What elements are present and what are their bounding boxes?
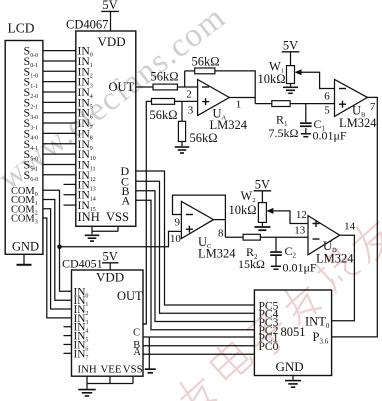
svg-text:W2: W2: [241, 189, 256, 204]
W1 wiper arrow: [295, 69, 302, 75]
svg-text:OUT: OUT: [109, 80, 135, 94]
wire W1 wiper to U_B pin6: [302, 72, 335, 88]
svg-text:VSS: VSS: [123, 363, 143, 375]
svg-text:PC0: PC0: [259, 341, 279, 353]
svg-text:LM324: LM324: [198, 247, 236, 261]
junction dot COM0 tap: [57, 245, 62, 250]
svg-text:LM324: LM324: [210, 118, 248, 132]
wire fb right to output node: [215, 71, 255, 104]
wire COM3 to CD4051 IN3: [43, 218, 72, 318]
svg-text:LCD: LCD: [8, 21, 35, 36]
ground C2: [275, 256, 277, 266]
svg-text:VSS: VSS: [106, 210, 129, 224]
wire COM0 tap to U_C pin10: [60, 231, 182, 246]
wire COM2 to CD4051 IN2: [43, 209, 72, 309]
wire D to 8051 PC5: [136, 171, 255, 305]
CD4051 IN0..IN7 labels: [74, 286, 89, 361]
wire R to U_A pin2: [177, 86, 197, 88]
svg-text:0.01μF: 0.01μF: [313, 128, 347, 142]
svg-text:GND: GND: [12, 239, 39, 253]
wire W2 wiper to U_D pin12: [273, 211, 308, 224]
wire COM0 to CD4051 IN0: [43, 190, 72, 291]
wire CD4051 OUT riser: [143, 101, 152, 324]
svg-text:VDD: VDD: [98, 34, 126, 49]
svg-text:COM3: COM3: [11, 214, 38, 226]
CD4051 block box: [72, 270, 144, 376]
wire R1 to U_B pin5: [290, 103, 334, 105]
svg-text:CD4051: CD4051: [62, 256, 103, 270]
ground select: [145, 368, 156, 370]
resistor R1 7.5k: [272, 101, 290, 107]
svg-text:VDD: VDD: [96, 270, 124, 285]
svg-text:GND: GND: [276, 359, 304, 374]
capacitor C2: [275, 237, 277, 251]
potentiometer W2: [258, 203, 266, 223]
wire select ground drop: [148, 337, 150, 368]
wire CD4067 OUT to R 56k: [136, 86, 153, 88]
resistor R2 15k: [243, 234, 260, 240]
op-amp U_A: [198, 80, 230, 116]
svg-text:5: 5: [324, 104, 330, 116]
svg-text:3: 3: [188, 105, 194, 117]
wire fb left seg: [185, 70, 195, 72]
wire A to 8051 PC2: [136, 200, 255, 329]
ground CD4051: [86, 384, 88, 389]
CD4067 IN13-IN15 stub wires: [64, 183, 76, 185]
wire U_C out to R2: [225, 236, 243, 238]
svg-text:56kΩ: 56kΩ: [150, 69, 178, 83]
CD4067 IN0..IN15 labels: [78, 45, 96, 214]
svg-text:LM324: LM324: [316, 252, 354, 266]
CD4051 bottom ground bus: [86, 376, 88, 383]
svg-text:5V: 5V: [102, 0, 117, 12]
svg-text:C2: C2: [285, 244, 297, 260]
wire CD4051 B to 8051 PC0: [143, 345, 254, 347]
CD4051 OUT stub: [143, 323, 146, 325]
svg-text:CD4067: CD4067: [66, 18, 108, 32]
op-amp U_B: [335, 79, 368, 116]
LCD ground symbol: [23, 254, 25, 264]
svg-text:5V: 5V: [255, 178, 270, 192]
wire U_D output to 8051 INT0: [332, 235, 355, 321]
svg-text:INT0: INT0: [305, 315, 330, 331]
LCD segment pin labels S0-0..S6-0: [24, 44, 39, 183]
wire COM1 to CD4051 IN1: [43, 200, 72, 301]
8051 block box: [254, 290, 331, 376]
svg-text:10kΩ: 10kΩ: [229, 203, 257, 217]
watermark www.elecfans.com: [0, 0, 233, 197]
ground below 56k resistor: [181, 142, 183, 147]
LCD block box: [5, 41, 43, 255]
LCD COM0-COM3 pin labels: [11, 186, 38, 226]
wire U_B output to 8051 P3.6: [332, 97, 378, 337]
potentiometer W1: [287, 66, 295, 84]
wire C to 8051 PC4: [136, 181, 255, 313]
wire U_A output: [229, 97, 255, 99]
wire U_C feedback loop: [173, 195, 226, 237]
svg-text:5V: 5V: [103, 250, 118, 264]
svg-text:7: 7: [370, 101, 376, 113]
wire B to 8051 PC3: [136, 191, 255, 322]
wire U_C output: [214, 219, 226, 221]
watermark dianzifashaoyou (pink): [170, 213, 382, 401]
svg-text:12: 12: [296, 209, 307, 221]
svg-text:56kΩ: 56kΩ: [191, 55, 219, 69]
wire CD4051 A to 8051: [143, 353, 254, 355]
ground 8051: [292, 376, 294, 380]
svg-text:C: C: [133, 328, 140, 339]
svg-text:14: 14: [344, 220, 356, 232]
capacitor C1: [305, 104, 307, 123]
W2 wiper arrow: [266, 208, 273, 214]
svg-text:10kΩ: 10kΩ: [258, 72, 286, 86]
svg-text:8: 8: [218, 227, 224, 239]
resistor 56k input1: [153, 84, 177, 90]
wire R to U_A pin3: [175, 100, 198, 102]
op-amp U_D: [308, 216, 340, 255]
wire R2 to U_D pin13: [260, 236, 308, 238]
8051 PC5..PC0 labels: [259, 300, 279, 353]
svg-text:15kΩ: 15kΩ: [238, 257, 265, 271]
svg-text:7.5kΩ: 7.5kΩ: [269, 126, 299, 140]
svg-text:A: A: [122, 194, 131, 208]
ground CD4067: [91, 231, 93, 234]
svg-text:5V: 5V: [283, 39, 298, 53]
op-amp U_C: [181, 201, 213, 238]
svg-text:2: 2: [186, 89, 192, 101]
svg-text:INH: INH: [78, 210, 100, 224]
wire CD4051 C to 8051 PC1: [143, 336, 254, 338]
wires S0-0..S6-0 to IN0..IN12: [43, 51, 76, 175]
wire to ground resistor: [181, 101, 183, 121]
CD4051 IN4..IN7 stub wires: [64, 326, 72, 328]
resistor 56k input2: [152, 99, 175, 105]
svg-text:10: 10: [170, 233, 182, 245]
ground C1: [305, 128, 307, 133]
svg-text:56kΩ: 56kΩ: [149, 108, 177, 122]
svg-text:56kΩ: 56kΩ: [190, 131, 218, 145]
svg-text:VEE: VEE: [101, 363, 122, 375]
svg-text:6: 6: [324, 90, 330, 102]
svg-text:13: 13: [294, 225, 306, 237]
svg-text:1: 1: [236, 99, 242, 111]
svg-text:A: A: [133, 347, 141, 358]
svg-text:LM324: LM324: [339, 116, 377, 130]
ground W2: [261, 222, 263, 226]
CD4067 INH VSS ground bus: [91, 226, 93, 231]
wire output node to R1: [255, 103, 272, 105]
svg-text:0.01μF: 0.01μF: [283, 260, 317, 274]
svg-text:OUT: OUT: [117, 289, 143, 303]
CD4067 block box: [76, 31, 136, 226]
svg-text:8051: 8051: [281, 325, 306, 339]
ground W1: [290, 84, 292, 87]
svg-text:P3.6: P3.6: [313, 330, 329, 346]
resistor 56k to ground: [178, 121, 185, 141]
svg-text:INH: INH: [78, 363, 97, 375]
resistor 56k feedback: [195, 68, 215, 74]
svg-text:9: 9: [175, 217, 181, 229]
wire feedback up: [184, 71, 186, 87]
